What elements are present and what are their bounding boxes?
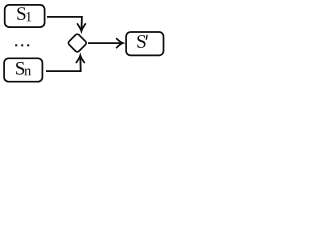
arrowhead down into diamond top: [77, 24, 85, 31]
state box S': [126, 32, 163, 55]
wire from S1 to diamond: [47, 17, 82, 31]
wire from Sn to diamond: [46, 56, 81, 71]
state box S1: [5, 5, 45, 27]
arrow wire from diamond to S': [88, 42, 122, 44]
merge diamond: [67, 33, 87, 53]
ellipsis dots: [15, 44, 29, 46]
state box Sn: [4, 58, 42, 81]
arrowhead right into S': [117, 39, 123, 48]
arrowhead up into diamond bottom: [76, 55, 84, 62]
